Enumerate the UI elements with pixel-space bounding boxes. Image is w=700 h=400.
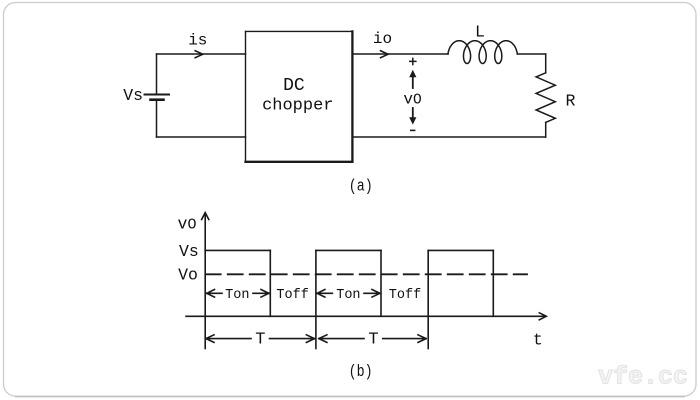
arrow io chevron <box>381 51 389 58</box>
pulse 2 top <box>316 249 381 251</box>
T arrow 1 <box>206 335 315 343</box>
svg-text:Vs: Vs <box>179 242 199 261</box>
svg-text:vO: vO <box>403 91 421 109</box>
svg-text:Vo: Vo <box>178 266 198 285</box>
svg-text:t: t <box>533 331 543 350</box>
pulse 2 right edge <box>380 250 382 316</box>
svg-text:(a): (a) <box>349 176 373 196</box>
axis t horizontal <box>186 315 544 317</box>
arrow is chevron <box>195 51 203 58</box>
battery Vs long plate <box>145 94 170 96</box>
svg-text:Toff: Toff <box>389 288 421 303</box>
vo down arrowhead <box>409 117 416 124</box>
resistor R zigzag <box>536 73 555 123</box>
label minus <box>410 129 415 131</box>
wire right vertical to resistor <box>545 54 547 73</box>
svg-text:vfe.cc: vfe.cc <box>598 363 688 392</box>
svg-text:is: is <box>188 32 207 50</box>
svg-text:(b): (b) <box>349 362 373 382</box>
svg-text:DC: DC <box>283 76 305 96</box>
svg-text:Vs: Vs <box>123 86 143 105</box>
svg-text:chopper: chopper <box>262 97 333 116</box>
vo up arrowhead <box>409 70 416 77</box>
svg-text:Ton: Ton <box>336 288 360 303</box>
pulse 2 left edge with tick <box>315 250 317 348</box>
svg-text:io: io <box>373 30 392 48</box>
vo up arrow <box>412 76 414 88</box>
svg-text:T: T <box>368 331 378 350</box>
wire bottom left segment <box>157 136 246 138</box>
wire battery left vertical top <box>156 54 158 94</box>
svg-text:L: L <box>475 23 485 42</box>
DC chopper box U1 <box>246 30 353 32</box>
pulse 1 right edge <box>269 250 271 316</box>
pulse 3 top <box>428 249 493 251</box>
wire battery left vertical bottom <box>156 101 158 137</box>
Ton arrow 2 <box>317 290 380 298</box>
Ton arrow 1 <box>207 290 269 298</box>
svg-text:Toff: Toff <box>276 288 308 303</box>
pulse 3 right edge <box>492 250 494 316</box>
wire resistor bottom <box>545 122 547 137</box>
svg-text:Ton: Ton <box>225 288 249 303</box>
pulse 3 left edge with tick <box>427 250 429 348</box>
axis vo vertical <box>204 214 206 349</box>
T arrow 2 <box>319 335 426 343</box>
vo down arrow <box>412 108 414 120</box>
pulse 1 top <box>205 249 270 251</box>
dashed Vo level line <box>206 273 527 275</box>
battery Vs short plate <box>151 98 164 101</box>
inductor L coil <box>448 41 517 64</box>
axis vo arrowhead <box>202 213 209 220</box>
wire inductor to corner <box>517 53 545 55</box>
svg-text:R: R <box>566 92 576 111</box>
wire bottom right segment <box>353 136 546 138</box>
label plus <box>409 58 417 66</box>
wire battery top to box <box>157 53 246 55</box>
wire box to inductor <box>353 53 448 55</box>
svg-text:vO: vO <box>178 215 197 234</box>
axis t arrowhead <box>539 313 546 320</box>
svg-text:T: T <box>255 331 265 350</box>
